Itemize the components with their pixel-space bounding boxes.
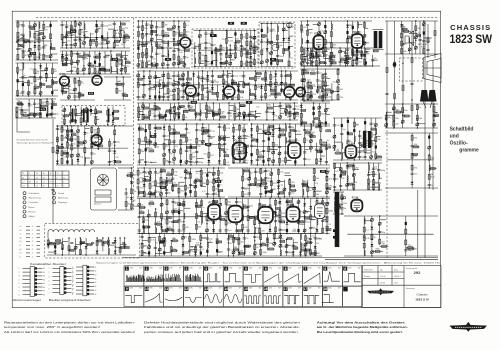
resistor R45 xyxy=(119,26,125,31)
svg-text:10k: 10k xyxy=(144,115,147,117)
wire xyxy=(78,55,82,57)
junction xyxy=(34,62,35,63)
svg-text:b4: b4 xyxy=(95,278,97,280)
wire xyxy=(228,73,232,75)
svg-text:500p: 500p xyxy=(199,162,204,164)
capacitor C197 xyxy=(360,53,363,54)
svg-text:4,7k: 4,7k xyxy=(373,144,377,146)
wire xyxy=(301,69,303,100)
junction xyxy=(285,70,286,71)
svg-text:22n: 22n xyxy=(313,86,316,88)
wire xyxy=(289,35,293,37)
svg-text:i1: i1 xyxy=(20,256,21,258)
resistor R232 xyxy=(232,80,237,84)
junction xyxy=(34,42,35,43)
wire xyxy=(56,126,58,165)
wire xyxy=(66,70,70,72)
wire xyxy=(352,21,354,66)
junction xyxy=(138,20,139,21)
svg-text:10n: 10n xyxy=(414,174,417,176)
resistor R183 xyxy=(234,45,240,50)
inductor L xyxy=(226,47,227,53)
diode D xyxy=(282,38,285,41)
svg-text:330k: 330k xyxy=(367,150,371,152)
svg-text:50Hz: 50Hz xyxy=(308,267,312,269)
svg-text:470: 470 xyxy=(414,138,418,140)
svg-text:Spannungen und Ströme gemessen: Spannungen und Ströme gemessen bei mittl… xyxy=(96,262,440,265)
resistor R163 xyxy=(178,56,183,61)
resistor R181 xyxy=(225,39,231,44)
svg-text:6: 6 xyxy=(285,267,287,271)
resistor R356 xyxy=(394,62,396,67)
svg-text:0,1µ: 0,1µ xyxy=(29,69,34,71)
resistor R256 xyxy=(290,84,295,86)
wire xyxy=(249,77,254,79)
svg-text:330k: 330k xyxy=(375,249,379,251)
resistor R174 xyxy=(205,61,211,66)
resistor R118 xyxy=(63,150,68,154)
wire xyxy=(267,40,271,42)
resistor R144 xyxy=(142,53,148,58)
junction xyxy=(77,73,78,74)
capacitor C3 xyxy=(22,34,25,35)
wire xyxy=(150,108,154,110)
wire xyxy=(87,109,94,111)
wire xyxy=(353,54,359,56)
junction xyxy=(123,31,124,32)
svg-text:680: 680 xyxy=(414,156,418,158)
junction xyxy=(239,112,240,113)
wire xyxy=(66,126,68,165)
wire xyxy=(150,109,157,111)
capacitor C27 xyxy=(101,43,108,45)
capacitor C71 xyxy=(137,26,145,28)
svg-text:56k: 56k xyxy=(180,91,183,93)
wire xyxy=(150,86,156,88)
svg-text:10n: 10n xyxy=(94,136,97,138)
wire xyxy=(263,124,265,165)
junction xyxy=(190,164,191,165)
svg-text:4k: 4k xyxy=(43,173,45,175)
resistor R235 xyxy=(243,83,245,88)
junction xyxy=(325,80,326,81)
svg-text:Ablenkung: Ablenkung xyxy=(58,197,69,200)
wire xyxy=(198,94,202,96)
wire xyxy=(385,127,438,129)
measurement label xyxy=(70,30,76,33)
trimmer xyxy=(300,61,303,64)
inductor L xyxy=(39,22,40,28)
resistor R385 xyxy=(163,158,169,163)
svg-text:10n: 10n xyxy=(209,194,212,196)
junction xyxy=(279,164,280,165)
resistor R302 xyxy=(318,39,320,44)
wire xyxy=(352,48,354,58)
svg-text:50Hz: 50Hz xyxy=(229,288,233,290)
capacitor C163 xyxy=(311,61,314,62)
IF transformer block xyxy=(62,106,125,126)
wire xyxy=(385,20,438,22)
resistor R210 xyxy=(138,76,143,80)
junction xyxy=(243,119,244,120)
resistor R196 xyxy=(250,61,256,66)
wire xyxy=(310,48,312,66)
resistor R168 xyxy=(183,38,185,43)
svg-text:330k: 330k xyxy=(100,66,104,68)
trimmer xyxy=(198,34,201,37)
resistor R31 xyxy=(52,81,57,83)
junction xyxy=(402,63,403,64)
capacitor C147 xyxy=(165,114,167,117)
capacitor C80 xyxy=(155,53,161,55)
capacitor C117 xyxy=(162,96,165,97)
junction xyxy=(83,65,84,66)
svg-text:temperatur von max. 260° C aus: temperatur von max. 260° C ausgeführt we… xyxy=(4,325,100,329)
transistor AF106 xyxy=(283,83,295,97)
capacitor C26 xyxy=(101,35,103,38)
svg-text:4,7k: 4,7k xyxy=(272,77,276,79)
resistor R424 xyxy=(285,158,291,163)
trimmer xyxy=(158,84,161,87)
svg-text:b7: b7 xyxy=(43,291,45,293)
junction xyxy=(312,56,313,57)
wire xyxy=(268,124,270,165)
resistor R339 xyxy=(393,116,399,121)
resistor R10 xyxy=(34,55,40,60)
wire xyxy=(385,112,387,128)
svg-text:-5: -5 xyxy=(32,241,34,243)
wire xyxy=(174,48,179,50)
capacitor C118 xyxy=(167,82,174,84)
wire xyxy=(183,90,188,92)
wire xyxy=(158,111,160,120)
resistor R156 xyxy=(162,31,169,36)
wire xyxy=(255,76,260,78)
wire xyxy=(311,51,318,53)
resistor R299 xyxy=(307,30,314,35)
svg-text:d1: d1 xyxy=(20,237,22,239)
wire xyxy=(92,142,96,144)
inductor L xyxy=(295,146,296,152)
measurement label xyxy=(241,22,247,25)
svg-text:7: 7 xyxy=(49,292,50,294)
resistor R2 xyxy=(17,32,23,37)
wire xyxy=(167,71,169,100)
wire xyxy=(301,109,305,111)
svg-text:330k: 330k xyxy=(140,109,144,111)
wire xyxy=(147,60,151,62)
svg-text:b8: b8 xyxy=(95,294,97,296)
junction xyxy=(273,119,274,120)
svg-text:1k: 1k xyxy=(149,205,151,207)
svg-text:30V: 30V xyxy=(239,288,242,290)
svg-text:22n: 22n xyxy=(208,43,211,45)
wire xyxy=(365,28,369,30)
junction xyxy=(261,39,262,40)
svg-text:50µ: 50µ xyxy=(297,131,301,133)
svg-text:17: 17 xyxy=(304,287,308,291)
wire xyxy=(167,41,169,68)
wire xyxy=(276,93,280,95)
wire xyxy=(221,49,224,51)
svg-text:Fabrikates und mit unbedingt d: Fabrikates und mit unbedingt der gleiche… xyxy=(144,325,300,329)
svg-text:4: 4 xyxy=(49,280,50,282)
junction xyxy=(213,112,214,113)
wire xyxy=(100,68,106,70)
wire xyxy=(178,78,183,80)
resistor R90 xyxy=(39,100,46,105)
resistor R54 xyxy=(71,52,73,57)
wire xyxy=(324,21,326,66)
svg-text:5n: 5n xyxy=(111,150,113,152)
wire xyxy=(227,71,229,100)
diode D xyxy=(254,96,257,99)
junction xyxy=(294,114,295,115)
resistor R147 xyxy=(146,49,148,54)
junction xyxy=(86,112,87,113)
resistor R242 xyxy=(262,78,267,80)
junction xyxy=(107,47,108,48)
svg-text:1k: 1k xyxy=(374,237,376,239)
wire xyxy=(19,76,57,78)
wire xyxy=(317,126,320,128)
svg-text:470: 470 xyxy=(209,182,213,184)
resistor R203 xyxy=(277,43,283,48)
wire xyxy=(212,59,218,61)
wire xyxy=(197,157,204,159)
svg-text:2V: 2V xyxy=(50,181,53,183)
trimmer xyxy=(162,74,165,77)
capacitor C91 xyxy=(204,43,211,45)
resistor R278 xyxy=(206,113,208,118)
wire xyxy=(165,111,167,120)
wire xyxy=(62,63,67,65)
resistor R427 xyxy=(304,138,309,143)
capacitor C139 xyxy=(260,96,267,98)
resistor R287 xyxy=(240,105,245,107)
svg-text:Schaltdraht: Schaltdraht xyxy=(29,192,40,195)
capacitor C51 xyxy=(50,113,59,115)
capacitor C140 xyxy=(264,80,267,81)
svg-text:50Hz: 50Hz xyxy=(288,267,292,269)
wire xyxy=(23,40,30,42)
svg-text:56k: 56k xyxy=(116,45,119,47)
svg-text:50Hz: 50Hz xyxy=(269,288,273,290)
junction xyxy=(266,23,267,24)
wire xyxy=(163,124,165,165)
svg-text:3: 3 xyxy=(49,276,50,278)
wire xyxy=(219,103,221,120)
svg-text:56k: 56k xyxy=(243,204,246,206)
capacitor C182 xyxy=(312,121,315,122)
resistor R326 xyxy=(326,89,331,91)
wire xyxy=(385,53,438,55)
wire xyxy=(101,21,103,48)
wire xyxy=(281,71,283,93)
wire xyxy=(238,103,240,120)
resistor R68 xyxy=(116,59,121,61)
trimmer xyxy=(150,38,153,41)
capacitor C193 xyxy=(344,56,347,57)
trimmer xyxy=(28,54,31,57)
wire xyxy=(96,118,100,120)
diode D xyxy=(192,73,195,76)
svg-text:1n5: 1n5 xyxy=(179,52,183,54)
svg-text:1k: 1k xyxy=(185,117,187,119)
wire xyxy=(83,51,85,74)
tube PCL86 xyxy=(352,31,363,48)
resistor R117 xyxy=(61,159,63,164)
wire xyxy=(111,58,116,60)
wire xyxy=(173,71,175,100)
resistor R244 xyxy=(265,86,267,91)
svg-text:5n: 5n xyxy=(159,54,161,56)
svg-text:13: 13 xyxy=(204,287,208,291)
resistor R145 xyxy=(142,62,144,67)
resistor R77 xyxy=(78,93,84,98)
wire xyxy=(206,103,208,120)
svg-text:b3: b3 xyxy=(43,276,45,278)
junction xyxy=(290,99,291,100)
capacitor C212 xyxy=(190,145,192,148)
junction xyxy=(198,99,199,100)
wire xyxy=(17,103,24,105)
capacitor C187 xyxy=(418,39,421,40)
svg-text:500p: 500p xyxy=(181,230,186,232)
capacitor C62 xyxy=(66,160,68,163)
wire xyxy=(403,115,411,117)
resistor R112 xyxy=(56,146,58,151)
trimmer xyxy=(253,51,256,54)
capacitor C149 xyxy=(187,106,193,108)
wire xyxy=(320,124,322,165)
wire xyxy=(149,103,151,120)
inductor L xyxy=(311,50,312,56)
wire xyxy=(338,84,340,86)
svg-text:0,1: 0,1 xyxy=(318,63,322,65)
junction xyxy=(112,124,113,125)
resistor R218 xyxy=(179,78,184,80)
junction xyxy=(40,95,41,96)
resistor R229 xyxy=(222,95,228,100)
svg-text:1M: 1M xyxy=(37,71,40,73)
resistor R155 xyxy=(162,22,168,27)
resistor R388 xyxy=(170,132,175,134)
wire xyxy=(269,126,274,128)
wire xyxy=(105,55,110,57)
capacitor C34 xyxy=(88,55,91,56)
resistor R390 xyxy=(175,132,180,134)
resistor R330 xyxy=(401,33,403,38)
resistor R198 xyxy=(253,46,258,50)
junction xyxy=(356,53,357,54)
resistor R366 xyxy=(322,49,328,54)
svg-text:10n: 10n xyxy=(159,27,162,29)
resistor R150 xyxy=(151,30,153,35)
svg-text:0,1: 0,1 xyxy=(36,177,38,179)
junction xyxy=(339,47,340,48)
inductor L xyxy=(226,31,227,37)
svg-text:30V: 30V xyxy=(358,267,361,269)
resistor R292 xyxy=(285,110,290,114)
wire xyxy=(330,56,335,58)
svg-text:56k: 56k xyxy=(122,29,125,31)
resistor R116 xyxy=(61,151,67,156)
resistor R306 xyxy=(330,32,332,37)
wire xyxy=(330,21,332,66)
wire xyxy=(203,131,208,133)
resistor R389 xyxy=(173,129,178,134)
wire xyxy=(138,44,144,46)
wire xyxy=(72,134,76,136)
junction xyxy=(83,35,84,36)
svg-text:10k: 10k xyxy=(241,242,244,244)
svg-text:1k: 1k xyxy=(170,91,172,93)
wire xyxy=(154,71,156,100)
wire xyxy=(155,76,161,78)
junction xyxy=(16,117,17,118)
inductor L xyxy=(208,93,209,99)
wire xyxy=(385,103,438,105)
svg-text:12: 12 xyxy=(36,186,38,188)
junction xyxy=(313,102,314,103)
wire xyxy=(147,64,152,66)
capacitor C61 xyxy=(56,128,65,130)
svg-text:1k: 1k xyxy=(287,198,289,200)
resistor R36 xyxy=(74,22,79,27)
wire xyxy=(290,84,293,86)
resistor R253 xyxy=(285,83,292,88)
capacitor C90 xyxy=(204,33,212,35)
wire xyxy=(194,42,196,66)
svg-text:gramme: gramme xyxy=(459,148,479,154)
junction xyxy=(325,20,326,21)
diode D xyxy=(249,56,252,59)
svg-text:1k: 1k xyxy=(230,115,232,117)
resistor R138 xyxy=(116,161,121,163)
svg-text:1k: 1k xyxy=(67,128,69,130)
svg-text:1M: 1M xyxy=(331,62,334,64)
wire xyxy=(240,31,242,67)
junction xyxy=(261,99,262,100)
wire xyxy=(402,30,411,32)
wire xyxy=(95,65,100,67)
resistor R179 xyxy=(220,45,227,50)
resistor R5 xyxy=(18,45,23,47)
trimmer xyxy=(90,160,93,163)
wire xyxy=(179,35,183,37)
junction xyxy=(173,142,174,143)
svg-text:50Hz: 50Hz xyxy=(288,288,292,290)
svg-text:5n: 5n xyxy=(362,152,364,154)
wire xyxy=(41,84,45,86)
junction xyxy=(196,123,197,124)
capacitor C24 xyxy=(96,24,98,27)
svg-text:am G: der Bildröhre liegende M: am G: der Bildröhre liegende Meßgeräte e… xyxy=(317,325,408,329)
resistor R188 xyxy=(240,61,246,66)
junction xyxy=(77,145,78,146)
resistor R96 xyxy=(52,102,57,106)
junction xyxy=(174,111,175,112)
wire xyxy=(224,124,226,165)
inductor L xyxy=(267,27,268,33)
svg-text:-7: -7 xyxy=(32,230,34,232)
junction xyxy=(114,145,115,146)
svg-text:1M: 1M xyxy=(257,180,260,182)
trimmer xyxy=(284,109,287,112)
wire xyxy=(198,77,202,79)
diode D xyxy=(104,69,107,72)
